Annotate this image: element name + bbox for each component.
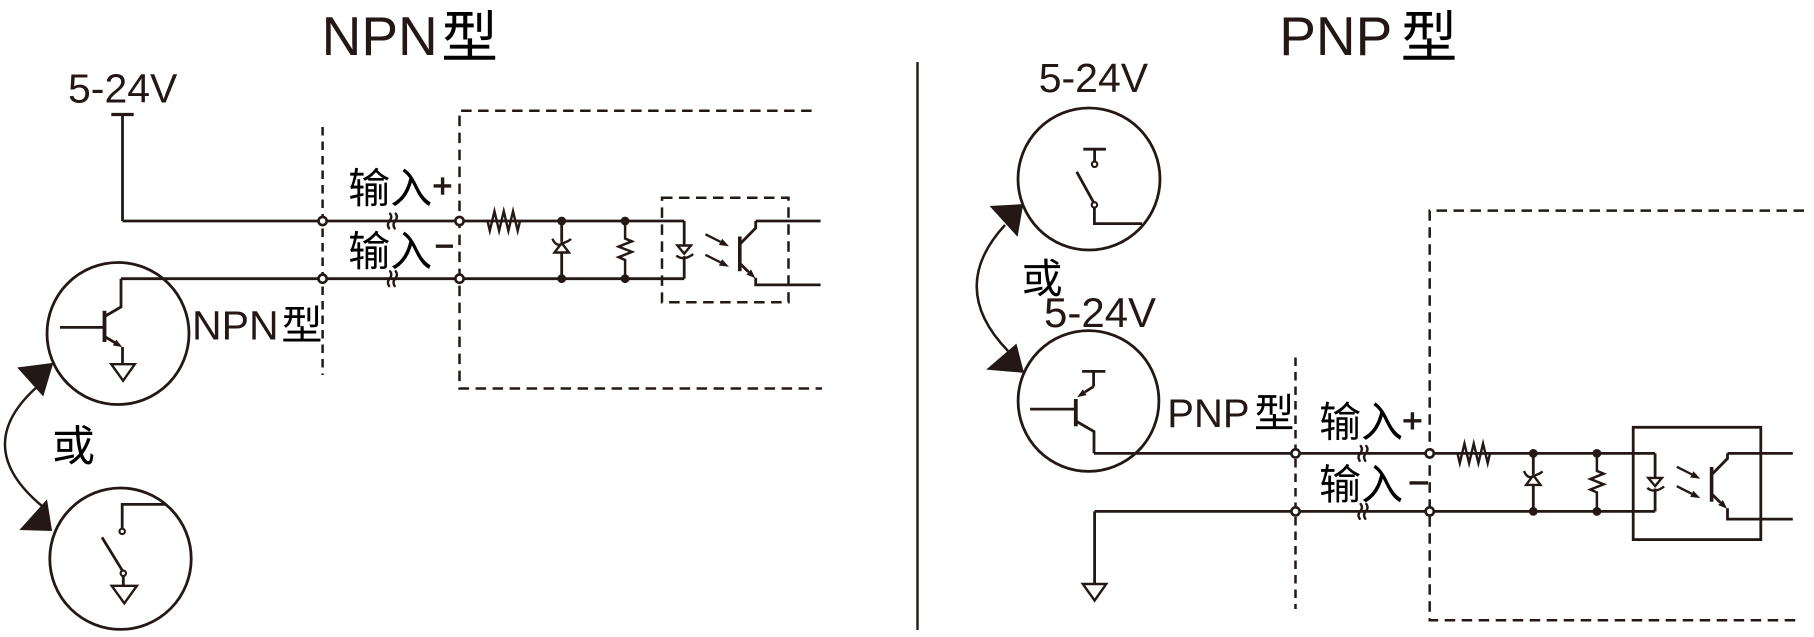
- junction dot bottom @R3: [621, 274, 630, 283]
- ground (right): [1083, 584, 1107, 601]
- svg-text:5-24V: 5-24V: [68, 65, 178, 111]
- node 输入- at board edge: [455, 275, 463, 283]
- switch S1 contact 1: [120, 529, 125, 534]
- switch S2 terminal bar: [1083, 149, 1106, 161]
- switch S2 circle: [1018, 108, 1160, 250]
- label 输入- (left): [350, 231, 453, 270]
- wire break marks bottom: [388, 271, 397, 286]
- wire 输入+ net right (top): [1094, 452, 1655, 455]
- svg-text:PNP: PNP: [1279, 5, 1392, 67]
- svg-text:5-24V: 5-24V: [1044, 289, 1156, 336]
- resistor R3 (series, right): [1458, 444, 1491, 464]
- svg-text:PNP: PNP: [1167, 392, 1249, 436]
- wire U2 emitter out: [1728, 508, 1793, 519]
- optocoupler U1 dashed box: [662, 198, 789, 303]
- wire break marks top (right): [1359, 446, 1368, 461]
- node 输入+ at connector (right): [1291, 449, 1299, 457]
- ground (Q1 emitter): [111, 364, 135, 381]
- optocoupler U1 light arrow 2: [706, 255, 721, 263]
- switch S1 blade: [102, 537, 122, 570]
- optocoupler U1 phototransistor bar: [738, 237, 742, 272]
- switch S1 contact 2: [121, 571, 126, 576]
- switch S2 bottom lead: [1094, 208, 1142, 224]
- transistor Q2 base lead: [1030, 408, 1075, 411]
- label 输入- (right): [1321, 464, 1428, 503]
- transistor Q2 base bar: [1074, 399, 1078, 426]
- optocoupler U2 light arrow 2: [1677, 486, 1692, 494]
- transistor Q1 base lead: [60, 326, 104, 329]
- switch S2 blade: [1077, 172, 1094, 202]
- or-arc arrowhead top (right): [991, 205, 1022, 235]
- zener diode D1: [552, 221, 571, 279]
- resistor R2 (shunt): [619, 221, 632, 279]
- node 输入- at board edge (right): [1426, 507, 1434, 515]
- optocoupler U1 light arrow 1: [706, 234, 721, 242]
- dashed board outline (right drive board): [1430, 211, 1804, 621]
- wire U1 collector out: [756, 220, 821, 223]
- junction dot bottom @D3: [1529, 507, 1538, 516]
- label 输入+ (right): [1321, 401, 1422, 440]
- resistor R4 (shunt, right): [1590, 453, 1603, 511]
- node 输入- at connector: [319, 275, 327, 283]
- transistor Q1 base bar: [103, 311, 107, 342]
- title PNP型: [1279, 5, 1454, 67]
- switch S1 circle: [50, 488, 191, 629]
- power terminal bar 5-24V: [111, 113, 133, 116]
- optocoupler U1 collector: [741, 221, 756, 244]
- optocoupler U2 box: [1633, 427, 1761, 539]
- node 输入- at connector (right): [1291, 507, 1299, 515]
- dashed boundary line (left connector): [321, 127, 324, 375]
- wire Q1 emitter to ground: [121, 347, 124, 364]
- transistor Q2 collector: [1076, 421, 1094, 453]
- dashed board outline (left drive board): [460, 111, 823, 389]
- resistor R1 (series, top wire): [488, 211, 521, 231]
- label 输入+ (left): [350, 168, 451, 207]
- title NPN型: [322, 5, 496, 67]
- optocoupler U2 collector: [1712, 453, 1727, 474]
- transistor Q2 emitter: [1085, 387, 1094, 393]
- node 输入+ at board edge: [455, 217, 463, 225]
- divider line: [916, 62, 918, 630]
- svg-text:NPN: NPN: [322, 5, 438, 67]
- wire break marks top: [388, 214, 397, 229]
- wire 输入- net right (bottom): [1095, 510, 1656, 513]
- transistor Q2 circle: [1018, 331, 1159, 472]
- transistor Q1 collector: [105, 279, 122, 317]
- wire 输入+ net (top): [123, 220, 685, 223]
- optocoupler U2 LED: [1647, 453, 1664, 511]
- wire to ground (right): [1093, 511, 1096, 584]
- or-arc arrowhead top: [19, 364, 53, 395]
- transistor Q1 circle: [47, 263, 189, 405]
- or-arc (right): [977, 225, 1008, 351]
- junction dot bottom @R2: [557, 274, 566, 283]
- or-arc (left): [5, 386, 42, 506]
- label PNP型: [1167, 392, 1292, 436]
- optocoupler U2 emitter: [1712, 495, 1720, 503]
- junction dot top @R3: [621, 217, 630, 226]
- transistor Q1 emitter: [105, 337, 116, 343]
- optocoupler U2 light arrow 1: [1677, 467, 1692, 475]
- switch S2 contact 2: [1092, 202, 1097, 207]
- node 输入+ at connector: [319, 217, 327, 225]
- wire 输入- net (bottom): [121, 277, 684, 280]
- switch S1 top lead: [122, 504, 166, 528]
- transistor Q2 emitter terminal bar: [1082, 371, 1105, 386]
- wire U2 collector out: [1728, 452, 1793, 455]
- label 或 (right): [1024, 259, 1061, 297]
- junction dot top @R4: [1593, 449, 1602, 458]
- switch S2 contact 1: [1092, 162, 1097, 167]
- node 输入+ at board edge (right): [1426, 449, 1434, 457]
- svg-text:5-24V: 5-24V: [1039, 55, 1149, 101]
- label NPN型: [192, 302, 320, 348]
- label 或 (left): [55, 425, 94, 465]
- svg-text:NPN: NPN: [192, 302, 279, 348]
- dashed boundary line (right connector): [1294, 358, 1297, 610]
- optocoupler U1 LED: [676, 221, 693, 279]
- or-arc arrowhead bottom: [21, 501, 51, 530]
- wire break marks bottom (right): [1359, 504, 1368, 519]
- wire S1 to ground: [122, 576, 125, 586]
- junction dot bottom @R4: [1593, 507, 1602, 516]
- optocoupler U2 phototransistor bar: [1710, 467, 1714, 502]
- wire U1 emitter out: [756, 278, 821, 285]
- wire supply stem: [121, 115, 124, 222]
- or-arc arrowhead bottom (right): [988, 345, 1023, 372]
- zener diode D3: [1524, 453, 1543, 511]
- ground (S1): [112, 586, 137, 604]
- junction dot top @D3: [1529, 449, 1538, 458]
- junction dot top @R2: [557, 217, 566, 226]
- optocoupler U1 emitter: [741, 264, 749, 272]
